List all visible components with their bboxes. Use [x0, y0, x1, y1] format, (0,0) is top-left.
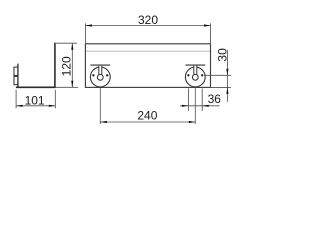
- front view: inner rim line: [86, 50, 210, 52]
- dimension 120: dimension line: [71, 43, 73, 87]
- dimension 101: extension lines: [16, 90, 55, 109]
- dimension 101: arrows: [16, 105, 23, 107]
- svg-text:120: 120: [60, 56, 74, 76]
- dimension 240: dimension line: [100, 121, 195, 123]
- side view: front panel vertical: [54, 43, 56, 88]
- dimension 36: dimension line: [180, 105, 220, 107]
- side view: bottom panel: [16, 86, 56, 88]
- bracket B2: [185, 65, 205, 87]
- side view: wall clip body: [14, 67, 18, 85]
- svg-text:30: 30: [216, 48, 230, 62]
- dimension 320: dimension line: [85, 25, 210, 27]
- dimension 30: arrows: [226, 69, 228, 76]
- dimension 30: dimension line: [226, 50, 228, 102]
- side view: wall plate vertical: [17, 64, 19, 88]
- side view: bottom extension to 120 dim: [56, 86, 78, 88]
- front view: shelf rectangle: [85, 44, 210, 88]
- dimension 320: arrows: [85, 24, 92, 26]
- dimension 320: extension lines: [85, 23, 210, 43]
- side view: top edge / extension to 120 dim: [54, 42, 77, 44]
- svg-text:36: 36: [208, 92, 222, 106]
- dimension 101: dimension line: [16, 105, 55, 107]
- bracket B1 centerline: [99, 80, 101, 124]
- dimension 36: extension lines: [188, 88, 202, 111]
- svg-text:320: 320: [138, 13, 158, 27]
- svg-text:101: 101: [25, 93, 45, 107]
- dimension 36: arrows (outside): [182, 105, 189, 107]
- dimension 30: extension line lower (shelf bottom): [211, 86, 231, 88]
- dimension 120: arrows: [71, 43, 73, 50]
- bracket B2 centerline: [194, 80, 196, 124]
- bracket B1: [90, 65, 110, 87]
- svg-text:240: 240: [137, 108, 157, 122]
- dimension 30: extension line upper (bracket centre height): [204, 74, 231, 76]
- dimension 240: arrows: [100, 121, 107, 123]
